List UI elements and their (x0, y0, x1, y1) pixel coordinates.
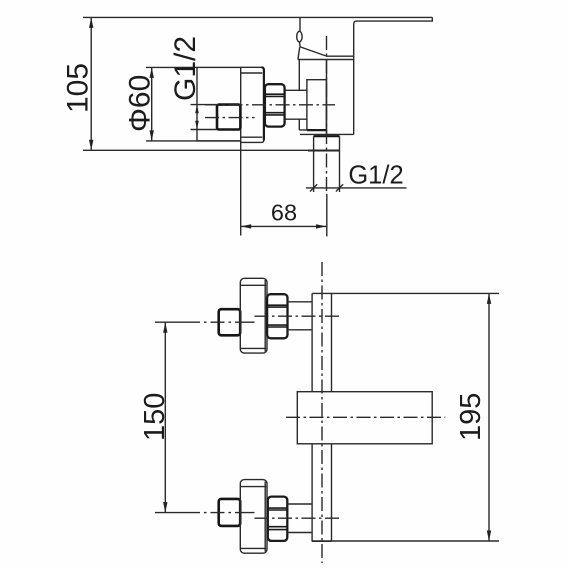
svg-text:G1/2: G1/2 (169, 36, 202, 101)
dim 150: arrows (163, 322, 167, 333)
dim 195: bottom extension (312, 540, 499, 542)
dim G1/2 square: extension lines (191, 104, 218, 106)
outlet pipe centerline (326, 36, 328, 194)
knob base outer top (241, 66, 262, 68)
svg-text:G1/2: G1/2 (348, 161, 403, 189)
dim 68: arrows (241, 224, 252, 228)
dim 195: dimension line (488, 293, 490, 541)
svg-text:195: 195 (455, 393, 487, 441)
dim 105: dimension line (90, 17, 92, 150)
lever front edge (299, 17, 301, 31)
top extension line and lever top edge (83, 16, 432, 18)
body cap seam (326, 55, 354, 57)
dim 195: arrows (487, 293, 491, 304)
lever neck (298, 42, 301, 47)
knob base outer bottom (241, 140, 264, 143)
knurled nut grooves (265, 93, 285, 95)
bottom knob square broach (bold) (219, 499, 241, 526)
knob base inner top line (241, 72, 263, 74)
top square axis centerline (155, 321, 255, 323)
bottom stem (288, 503, 313, 505)
dim 105: bottom extension line (83, 149, 340, 151)
dim 68: dimension line (241, 225, 327, 227)
top knob body (240, 278, 267, 353)
dim 105: arrows (89, 17, 93, 28)
valve stem bottom (285, 118, 307, 120)
lever pivot ellipse (297, 31, 302, 42)
outlet G1/2 tick right (336, 184, 343, 191)
dim phi60: arrows (150, 67, 154, 78)
dim phi60: extension lines (146, 66, 197, 68)
square axis centerline (205, 117, 255, 119)
outlet pipe left (313, 136, 315, 192)
handle skirt slant (300, 47, 326, 56)
handle lever bar (354, 17, 433, 24)
svg-text:68: 68 (271, 200, 297, 226)
body rear vertical upper (298, 60, 300, 91)
bottom nut grooves (268, 507, 288, 509)
dim 195: top extension (312, 292, 499, 294)
dim 150: dimension line (164, 322, 166, 512)
front view: wall bar left edge (311, 293, 313, 541)
top knob inner lines (240, 284, 266, 286)
outlet nut bottom bold (308, 150, 340, 152)
main axis centerline (205, 104, 335, 106)
knob base right edge (bold) (262, 67, 264, 140)
top nut grooves (267, 304, 287, 306)
front view: bar bottom edge (312, 540, 331, 542)
front view: wall bar right edge (331, 293, 333, 541)
bottom knob inner lines (240, 486, 266, 488)
front view: spout body (297, 392, 432, 444)
bottom nut (268, 497, 288, 541)
outlet nut top (314, 135, 340, 137)
body top line (298, 59, 354, 61)
dim G1/2 square: arrows on knob edge (195, 105, 199, 114)
knob body (197, 67, 241, 140)
top main axis centerline (255, 315, 342, 317)
knob base inner bottom line (241, 136, 263, 138)
top stem (288, 301, 313, 303)
valve stem top (285, 89, 307, 91)
dim 68: left extension (240, 141, 242, 236)
svg-text:105: 105 (62, 63, 95, 113)
outlet pipe right (339, 136, 341, 192)
outlet G1/2 tick left (310, 184, 317, 191)
body left edge (326, 60, 328, 135)
dim phi60: dimension line (151, 67, 153, 140)
handle back / body right edge (353, 24, 355, 134)
outlet G1/2 leader line (306, 187, 407, 189)
bottom knob body (240, 480, 267, 554)
handle skirt left edge (298, 47, 300, 59)
svg-text:Φ60: Φ60 (124, 75, 157, 132)
bottom square axis centerline (155, 512, 255, 514)
front view: bar centerline (321, 262, 323, 563)
svg-text:150: 150 (139, 393, 171, 441)
escutcheon bottom bold edge (307, 129, 327, 131)
knurled nut (265, 84, 285, 126)
escutcheon plate (307, 80, 327, 130)
front view: spout centerline (286, 416, 445, 418)
square broach (bold) (217, 105, 240, 130)
bottom main axis centerline (255, 517, 342, 519)
top knob square broach (bold) (219, 309, 241, 335)
body rear bottom ledge (299, 129, 307, 131)
top nut (267, 294, 287, 338)
body bottom (300, 133, 354, 135)
body rear vertical lower (298, 119, 300, 130)
